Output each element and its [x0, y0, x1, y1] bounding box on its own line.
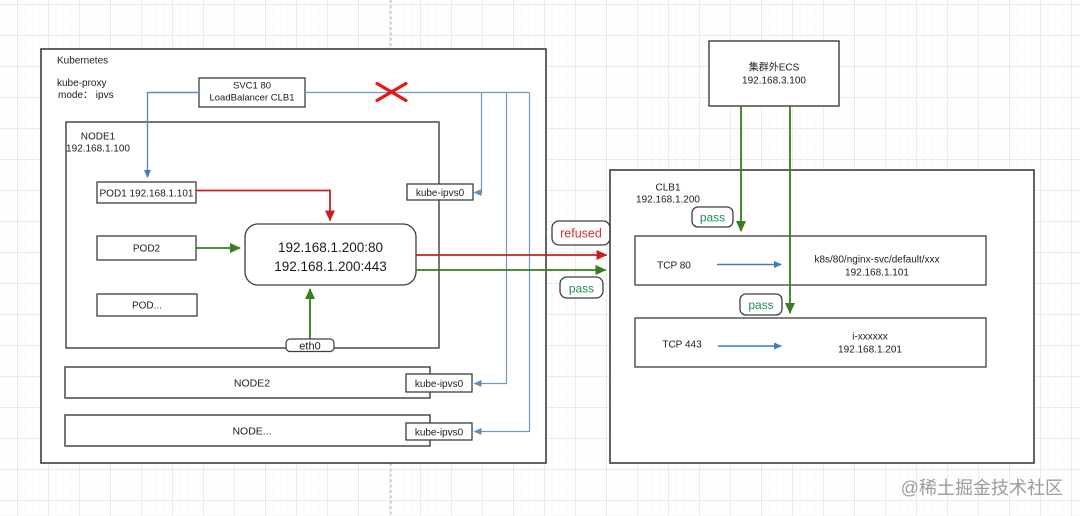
- svg-text:192.168.1.200:80: 192.168.1.200:80: [278, 240, 383, 255]
- NODE... box: [65, 415, 430, 446]
- svg-text:192.168.1.101: 192.168.1.101: [845, 268, 909, 279]
- refused label: [552, 221, 610, 245]
- svg-text:TCP 80: TCP 80: [657, 261, 691, 272]
- wire: blue drop to kube-ipvs0 NODE3: [475, 93, 530, 432]
- CLB1 container box: [610, 170, 1034, 463]
- svg-text:192.168.1.200: 192.168.1.200: [636, 194, 700, 205]
- svg-text:i-xxxxxx: i-xxxxxx: [852, 332, 888, 343]
- kube-ipvs0 box NODE1: [407, 184, 473, 200]
- wire: vs box to CLB pass (green): [416, 269, 606, 271]
- ECS box (outside cluster): [709, 41, 839, 106]
- svg-text:POD...: POD...: [132, 301, 162, 312]
- wire: ECS to TCP443 (green, passes through TCP80 box): [789, 106, 791, 313]
- kube-ipvs0 box NODE3: [406, 423, 472, 440]
- NODE1 box: [66, 122, 439, 348]
- wire: POD2 to vs box (green): [196, 247, 240, 249]
- pass label (TCP443): [740, 294, 782, 315]
- svg-text:NODE2: NODE2: [234, 378, 270, 390]
- svg-text:mode： ipvs: mode： ipvs: [58, 90, 114, 101]
- wire: vs box to CLB refused (red): [416, 254, 607, 256]
- svg-text:CLB1: CLB1: [655, 183, 680, 194]
- svg-text:Kubernetes: Kubernetes: [57, 56, 108, 67]
- POD2 box: [97, 236, 196, 260]
- page boundary dashed line (bottom): [390, 463, 392, 516]
- pass label (TCP80): [692, 207, 733, 227]
- ipvs virtual server rounded box: [245, 224, 416, 285]
- svg-text:kube-ipvs0: kube-ipvs0: [415, 379, 464, 390]
- wire: TCP80 internal arrow (blue): [717, 264, 781, 266]
- svg-text:LoadBalancer CLB1: LoadBalancer CLB1: [209, 93, 294, 104]
- svg-text:192.168.3.100: 192.168.3.100: [742, 75, 806, 86]
- eth0 box: [286, 339, 334, 352]
- svg-text:kube-ipvs0: kube-ipvs0: [416, 188, 465, 199]
- svg-text:kube-proxy: kube-proxy: [57, 78, 106, 89]
- POD... box: [97, 294, 197, 316]
- svg-text:POD2: POD2: [133, 244, 161, 255]
- wire: POD1 to vs box (red): [196, 191, 330, 221]
- svg-text:NODE1: NODE1: [81, 132, 116, 143]
- svg-text:kube-ipvs0: kube-ipvs0: [415, 428, 464, 439]
- svg-text:pass: pass: [569, 282, 594, 296]
- page boundary dashed line (top): [390, 0, 392, 49]
- svg-text:k8s/80/nginx-svc/default/xxx: k8s/80/nginx-svc/default/xxx: [814, 255, 939, 266]
- svg-text:192.168.1.100: 192.168.1.100: [66, 143, 130, 154]
- wire: blue drop to kube-ipvs0 NODE1: [475, 93, 482, 193]
- svg-text:pass: pass: [700, 211, 725, 225]
- wire: SVC1 left to POD1 (blue): [148, 93, 200, 178]
- wire: ECS to TCP80 (green): [740, 106, 742, 231]
- svg-text:refused: refused: [560, 227, 602, 241]
- SVC1 LoadBalancer box: [199, 78, 305, 107]
- svg-text:pass: pass: [748, 298, 773, 312]
- svg-text:192.168.1.200:443: 192.168.1.200:443: [274, 259, 387, 274]
- svg-text:eth0: eth0: [299, 340, 320, 352]
- wire: SVC1 right horizontal bus (blue): [305, 92, 530, 94]
- kube-ipvs0 box NODE2: [406, 374, 472, 392]
- pass label (middle): [560, 277, 603, 298]
- wire: TCP443 internal arrow (blue): [718, 345, 781, 347]
- svg-text:SVC1 80: SVC1 80: [233, 81, 271, 92]
- wire: eth0 up to vs box (green): [309, 289, 311, 339]
- svg-text:POD1 192.168.1.101: POD1 192.168.1.101: [100, 189, 194, 200]
- TCP 443 listener box: [635, 318, 986, 367]
- svg-text:TCP 443: TCP 443: [662, 340, 702, 351]
- wire: blue drop to kube-ipvs0 NODE2: [475, 93, 507, 384]
- svg-text:@稀土掘金技术社区: @稀土掘金技术社区: [901, 478, 1063, 498]
- Kubernetes container box: [41, 49, 546, 463]
- TCP 80 listener box: [635, 236, 986, 285]
- svg-text:192.168.1.201: 192.168.1.201: [838, 345, 902, 356]
- svg-text:集群外ECS: 集群外ECS: [749, 61, 800, 74]
- POD1 box: [97, 182, 196, 203]
- svg-text:NODE...: NODE...: [232, 426, 271, 438]
- red X on blue bus: [377, 84, 406, 101]
- NODE2 box: [65, 367, 430, 398]
